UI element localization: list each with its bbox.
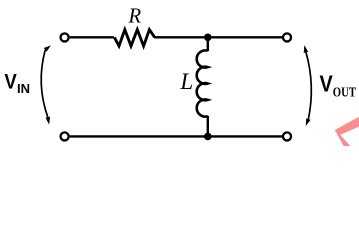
svg-text:V: V (320, 71, 334, 97)
svg-text:L: L (179, 69, 193, 94)
svg-text:V: V (4, 70, 17, 94)
svg-text:OUT: OUT (333, 85, 356, 100)
svg-text:IN: IN (17, 81, 30, 96)
svg-text:R: R (128, 4, 142, 28)
